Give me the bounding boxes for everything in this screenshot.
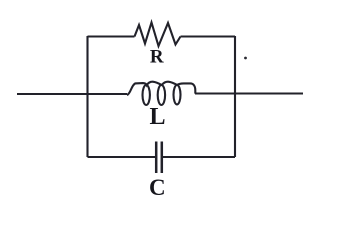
inductor L loop 2 [158, 85, 165, 105]
wire top-left segment [88, 35, 135, 37]
wire right lead [195, 92, 303, 94]
wire bottom-right segment [163, 156, 235, 158]
wire left vertical of loop [86, 36, 88, 157]
capacitor C left plate [155, 142, 158, 174]
wire left lead [17, 93, 127, 95]
wire right vertical of loop [234, 36, 236, 157]
node dot [244, 57, 247, 60]
svg-text:L: L [149, 104, 165, 130]
wire bottom-left segment [88, 156, 156, 158]
inductor L loop 3 [174, 85, 181, 104]
inductor L loop 1 [143, 85, 150, 105]
capacitor C right plate [161, 142, 164, 174]
wire top-right segment [181, 35, 236, 37]
svg-text:C: C [149, 175, 166, 200]
inductor L arcade [127, 82, 195, 95]
resistor R zigzag [135, 23, 181, 47]
svg-text:R: R [150, 47, 164, 68]
